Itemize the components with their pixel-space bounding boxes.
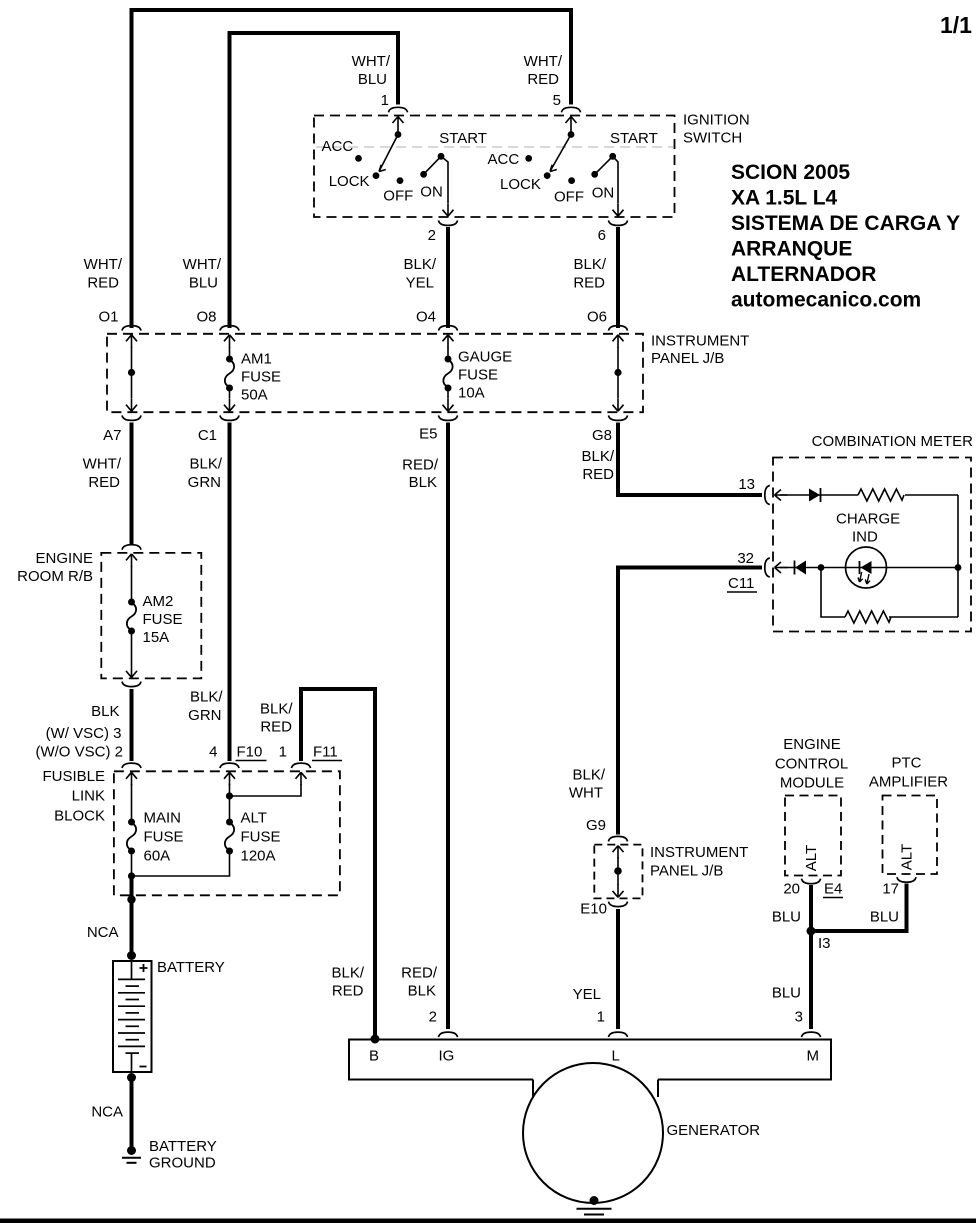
label E4: [823, 881, 843, 898]
svg-text:FUSE: FUSE: [241, 369, 281, 386]
svg-text:LINK: LINK: [72, 788, 105, 805]
wire YEL E10 down to generator L: [616, 909, 620, 1029]
wire BLU PTC to node I3: [811, 884, 907, 932]
ignition switch label: [683, 112, 750, 147]
combination meter box: [773, 458, 971, 632]
generator ground: [577, 1196, 612, 1215]
pin 13 arrow: [775, 490, 788, 501]
node below fusible link block: [127, 895, 135, 903]
svg-text:ALT: ALT: [241, 810, 267, 827]
svg-text:GRN: GRN: [188, 474, 221, 491]
battery plates: [118, 979, 145, 1053]
svg-text:CONTROL: CONTROL: [775, 756, 848, 773]
battery plus terminal: [132, 961, 148, 979]
label BLK/GRN above fusible link block: [188, 689, 223, 725]
svg-text:OFF: OFF: [383, 188, 413, 205]
svg-text:INSTRUMENT: INSTRUMENT: [650, 844, 748, 861]
connector M (female): [802, 1032, 821, 1037]
label wire BLK/GRN (upper): [188, 456, 223, 492]
svg-text:RED: RED: [87, 275, 119, 292]
pin O4 arrow: [443, 335, 454, 348]
svg-text:10A: 10A: [458, 385, 485, 402]
connector G8 (female): [609, 415, 628, 420]
svg-text:(W/ VSC) 3: (W/ VSC) 3: [46, 725, 122, 742]
switch arm to LOCK (left switch): [379, 135, 398, 172]
contact LOCK (right switch): [500, 172, 551, 193]
connector E10 (female): [609, 902, 628, 907]
connector out of engine room R/B (female): [122, 682, 141, 687]
svg-text:ACC: ACC: [488, 151, 520, 168]
node B at generator: [371, 1035, 380, 1044]
svg-text:SWITCH: SWITCH: [683, 130, 742, 147]
label wire BLK/YEL: [403, 256, 436, 292]
wire 13 branch: [780, 494, 958, 496]
wire WHT/BLU from O8 up over to ignition terminal 1: [230, 33, 399, 328]
label wire RED/BLK (upper): [402, 457, 439, 492]
svg-text:BLU: BLU: [870, 909, 899, 926]
wire BLK/YEL terminal 2 to O4: [446, 227, 450, 328]
ignition switch box: [314, 116, 675, 218]
fuse MAIN 60A: [127, 784, 136, 855]
svg-text:automecanico.com: automecanico.com: [731, 289, 921, 312]
label RED/BLK near generator IG: [401, 965, 438, 1000]
svg-text:1: 1: [381, 92, 389, 109]
svg-text:ON: ON: [420, 184, 443, 201]
instrument panel J/B box: [107, 334, 643, 412]
label AM1 FUSE 50A: [241, 351, 281, 404]
wire NCA battery to ground: [130, 1078, 134, 1150]
svg-text:BLK/: BLK/: [190, 689, 223, 706]
contact START (left switch): [438, 130, 487, 160]
svg-text:MODULE: MODULE: [780, 775, 844, 792]
connector 17 (female): [897, 877, 916, 882]
label wire WHT/RED (upper): [84, 256, 123, 292]
svg-text:ENGINE: ENGINE: [783, 736, 841, 753]
svg-text:F11: F11: [313, 744, 338, 761]
svg-text:F10: F10: [237, 744, 263, 761]
fuse AM1 50A: [225, 347, 234, 398]
wire BLK down to fusible link block: [130, 689, 134, 761]
generator box: [349, 1040, 831, 1098]
battery minus terminal: [132, 1053, 147, 1072]
node F10/F11 tie with junction: [226, 784, 301, 822]
engine room R/B label: [17, 550, 93, 585]
terminal labels 4 F10 1 F11: [209, 744, 342, 761]
node right tie junction: [955, 564, 962, 571]
contact OFF (right switch): [554, 177, 584, 205]
pin arrow out of engine room R/B: [126, 664, 137, 677]
svg-text:PANEL J/B: PANEL J/B: [651, 350, 724, 367]
connector O4 (female): [439, 326, 458, 331]
pin O1 arrow: [126, 335, 137, 348]
svg-text:RED: RED: [260, 719, 292, 736]
svg-text:17: 17: [882, 881, 899, 898]
right vertical tie line: [957, 495, 959, 617]
connector 1/F11 (female): [292, 763, 311, 768]
svg-text:3: 3: [795, 1009, 803, 1026]
svg-text:RED: RED: [573, 275, 605, 292]
svg-text:A7: A7: [103, 427, 121, 444]
svg-text:O1: O1: [98, 309, 118, 326]
svg-text:WHT/: WHT/: [352, 53, 391, 70]
svg-text:120A: 120A: [241, 848, 276, 865]
svg-text:BLK/: BLK/: [189, 456, 222, 473]
svg-text:20: 20: [783, 881, 800, 898]
connector 1 (female): [389, 107, 408, 112]
wire 32 branch: [780, 567, 958, 569]
svg-text:O6: O6: [587, 309, 607, 326]
engine control module box: [785, 796, 841, 876]
charge indicator LED diode: [860, 561, 872, 574]
connector 20/E4 (female): [802, 879, 821, 884]
svg-text:INSTRUMENT: INSTRUMENT: [651, 333, 749, 350]
contact LOCK (left switch): [329, 172, 380, 190]
label wire BLK/RED G8: [581, 448, 614, 483]
svg-text:WHT/: WHT/: [83, 456, 122, 473]
svg-text:E4: E4: [824, 881, 842, 898]
pin arrow 4/F10: [224, 772, 235, 785]
contact ON (right switch): [591, 171, 614, 202]
wire WHT/RED A7 down to engine room R/B: [130, 423, 134, 545]
svg-text:IG: IG: [439, 1048, 455, 1065]
node battery negative: [127, 1073, 136, 1082]
instrument panel J/B label: [651, 333, 749, 368]
svg-text:BLOCK: BLOCK: [54, 808, 105, 825]
svg-text:BLK: BLK: [409, 474, 437, 491]
connector C11 label: [727, 575, 757, 592]
svg-text:AM1: AM1: [241, 351, 272, 368]
contact OFF (left switch): [383, 177, 413, 204]
svg-text:NCA: NCA: [87, 924, 119, 941]
terminal 2 pin arrow: [443, 203, 454, 216]
svg-text:WHT/: WHT/: [84, 256, 123, 273]
svg-text:GROUND: GROUND: [149, 1155, 216, 1172]
svg-text:1: 1: [279, 744, 287, 761]
diode D1 (anode left): [809, 488, 821, 502]
label wire WHT/BLU (upper): [183, 256, 222, 292]
wire START pivot down to terminal 6 (right switch): [613, 156, 618, 203]
fuse AM2 15A: [127, 566, 136, 665]
svg-text:FUSIBLE: FUSIBLE: [42, 768, 105, 785]
svg-text:OFF: OFF: [554, 189, 584, 206]
svg-text:ON: ON: [592, 185, 615, 202]
svg-text:M: M: [807, 1048, 820, 1065]
engine room R/B box: [101, 553, 201, 679]
svg-text:RED: RED: [527, 71, 559, 88]
svg-text:32: 32: [737, 550, 754, 567]
switch arm pivot (left switch): [395, 129, 402, 138]
connector L (female): [609, 1032, 628, 1037]
connector 2/3 into fusible link block (female): [122, 763, 141, 768]
PTC amplifier box: [883, 796, 938, 875]
fuse GAUGE 10A: [443, 347, 452, 398]
svg-text:GRN: GRN: [188, 707, 221, 724]
svg-text:BATTERY: BATTERY: [149, 1138, 217, 1155]
resistor R1: [858, 488, 905, 502]
wire START pivot down to terminal 2 (left switch): [441, 156, 448, 203]
pin E10 arrow: [613, 884, 624, 897]
wire BLK/GRN C1 down to fusible link block: [228, 423, 232, 762]
connector O6 (female): [609, 326, 628, 331]
bottom border bar: [0, 1219, 976, 1223]
svg-text:RED: RED: [582, 466, 614, 483]
svg-text:GENERATOR: GENERATOR: [667, 1122, 761, 1139]
node O1-A7 junction: [128, 347, 135, 398]
label AM2 FUSE 15A: [143, 593, 183, 646]
svg-text:BLK/: BLK/: [331, 965, 364, 982]
svg-text:L: L: [612, 1048, 620, 1065]
svg-text:ALT: ALT: [803, 845, 820, 871]
svg-text:ROOM R/B: ROOM R/B: [17, 568, 93, 585]
contact ACC (right switch): [488, 151, 533, 168]
svg-text:ARRANQUE: ARRANQUE: [731, 238, 852, 261]
pin A7 arrow: [126, 398, 137, 411]
node MAIN/ALT junction: [128, 851, 135, 880]
svg-text:FUSE: FUSE: [143, 611, 183, 628]
pin arrow into engine room R/B: [126, 554, 137, 567]
svg-text:C1: C1: [198, 427, 217, 444]
node G9-E10 junction: [614, 857, 622, 885]
svg-text:ENGINE: ENGINE: [35, 550, 93, 567]
svg-text:C11: C11: [728, 575, 754, 592]
faint inner divider line: [316, 146, 673, 148]
svg-text:BLK/: BLK/: [403, 256, 436, 273]
svg-text:AM2: AM2: [143, 593, 174, 610]
pin O8 arrow: [224, 335, 235, 348]
label wire BLK/RED (upper): [573, 256, 606, 292]
svg-text:1: 1: [597, 1009, 605, 1026]
svg-text:YEL: YEL: [406, 275, 434, 292]
svg-text:XA 1.5L L4: XA 1.5L L4: [731, 187, 838, 210]
label CHARGE IND: [836, 511, 900, 546]
svg-text:COMBINATION METER: COMBINATION METER: [812, 433, 974, 450]
connector IG (female): [439, 1032, 458, 1037]
connector 1 pin arrow: [393, 117, 404, 130]
svg-text:6: 6: [598, 227, 606, 244]
engine control module label: [775, 736, 848, 792]
pin G9 arrow: [613, 846, 624, 859]
fuse ALT 120A: [225, 819, 234, 855]
contact ON (left switch): [420, 171, 443, 201]
svg-text:BLU: BLU: [772, 909, 801, 926]
label BLK/WHT: [569, 767, 606, 802]
svg-text:2: 2: [428, 227, 436, 244]
switch arm pivot (right switch): [568, 129, 575, 138]
wire WHT/RED from O1 up over to ignition terminal 5: [132, 10, 572, 328]
svg-text:RED: RED: [88, 474, 120, 491]
switch arm to LOCK (right switch): [550, 135, 571, 172]
connector 5 pin arrow: [566, 117, 577, 130]
svg-text:(W/O VSC) 2: (W/O VSC) 2: [35, 744, 123, 761]
connector E5 (female): [439, 415, 458, 420]
generator circle: [523, 1063, 663, 1203]
svg-text:BATTERY: BATTERY: [157, 959, 225, 976]
svg-text:YEL: YEL: [573, 986, 601, 1003]
svg-text:WHT/: WHT/: [524, 53, 563, 70]
small instrument panel J/B box: [594, 845, 642, 899]
svg-text:LOCK: LOCK: [500, 176, 541, 193]
wire BLK/WHT from meter 32 down to G9: [618, 568, 762, 835]
svg-text:WHT: WHT: [569, 785, 603, 802]
connector G9 (female): [609, 836, 628, 841]
node battery positive: [127, 951, 136, 960]
label GAUGE FUSE 10A: [458, 349, 512, 402]
svg-text:BLU: BLU: [189, 275, 218, 292]
svg-text:PANEL J/B: PANEL J/B: [650, 863, 723, 880]
svg-text:RED/: RED/: [401, 965, 438, 982]
svg-text:FUSE: FUSE: [144, 829, 184, 846]
pin arrow 2/3: [126, 772, 137, 785]
svg-text:FUSE: FUSE: [241, 829, 281, 846]
svg-text:PTC: PTC: [892, 755, 922, 772]
wire ON to START pivot (right switch): [595, 156, 613, 174]
diode D2 (cathode left): [795, 561, 807, 575]
svg-text:BLU: BLU: [772, 985, 801, 1002]
terminal 6 pin arrow: [613, 203, 624, 216]
node I3 junction: [807, 927, 831, 953]
node charge ind branch junction: [818, 564, 825, 571]
svg-text:4: 4: [209, 744, 217, 761]
connector 4/F10 (female): [220, 763, 239, 768]
svg-text:G8: G8: [592, 427, 612, 444]
svg-text:RED/: RED/: [402, 457, 439, 474]
node O6-G8 junction: [614, 347, 621, 398]
wire RED/BLK E5 down to generator IG: [446, 423, 450, 1030]
battery box: [113, 961, 152, 1072]
title block: [731, 161, 960, 312]
svg-text:BLK/: BLK/: [573, 256, 606, 273]
connector O1 (female): [122, 326, 141, 331]
svg-text:START: START: [439, 130, 487, 147]
label WHT/BLU wire 1: [352, 53, 391, 109]
fusible link block box: [114, 771, 340, 895]
connector 6 (female): [609, 220, 628, 225]
svg-text:FUSE: FUSE: [458, 367, 498, 384]
resistor R2 branch: [821, 568, 845, 618]
svg-text:13: 13: [738, 476, 755, 493]
wire BLK/RED terminal 6 to O6: [616, 227, 620, 328]
wire BLK/RED from fusible link F11 over to generator B: [301, 689, 375, 1037]
svg-text:60A: 60A: [144, 848, 171, 865]
label WHT/RED wire 5: [524, 53, 563, 109]
PTC amplifier label: [869, 755, 948, 791]
svg-text:ACC: ACC: [322, 138, 354, 155]
svg-text:WHT/: WHT/: [183, 256, 222, 273]
svg-text:SISTEMA DE CARGA Y: SISTEMA DE CARGA Y: [731, 212, 960, 235]
svg-text:MAIN: MAIN: [144, 810, 182, 827]
contact ACC (left switch): [322, 138, 362, 162]
pin O6 arrow: [613, 335, 624, 348]
svg-text:E10: E10: [580, 901, 607, 918]
connector 2 (female): [439, 220, 458, 225]
battery ground label: [149, 1138, 217, 1172]
svg-text:IGNITION: IGNITION: [683, 112, 750, 129]
pin G8 arrow: [613, 398, 624, 411]
pin 32 arrow: [775, 562, 788, 573]
svg-text:RED: RED: [332, 983, 364, 1000]
label ALT FUSE 120A: [241, 810, 281, 865]
svg-text:O8: O8: [196, 309, 216, 326]
svg-text:BLK/: BLK/: [572, 767, 605, 784]
connector 5 (female): [562, 107, 581, 112]
pin arrow 1/F11: [296, 772, 307, 785]
small instrument panel J/B label: [650, 844, 748, 880]
pin E5 arrow: [443, 398, 454, 411]
svg-text:BLK: BLK: [91, 703, 119, 720]
connector into engine room R/B (female): [122, 545, 141, 550]
svg-text:IND: IND: [852, 529, 878, 546]
contact START (right switch): [609, 130, 657, 160]
svg-text:ALTERNADOR: ALTERNADOR: [731, 263, 876, 286]
svg-text:CHARGE: CHARGE: [836, 511, 900, 528]
svg-text:BLU: BLU: [358, 71, 387, 88]
svg-text:START: START: [610, 130, 658, 147]
svg-text:15A: 15A: [143, 629, 170, 646]
connector C1 (female): [220, 415, 239, 420]
connector 32 (female): [765, 558, 770, 577]
svg-text:SCION 2005: SCION 2005: [731, 161, 850, 184]
label BLK/RED above fusible link block: [260, 701, 293, 736]
label wire WHT/RED (lower): [83, 456, 122, 492]
resistor R2: [845, 611, 958, 623]
charge indicator LED circle: [846, 547, 887, 588]
charge indicator LED arrows: [858, 572, 870, 584]
svg-text:O4: O4: [416, 309, 436, 326]
pin C1 arrow: [224, 398, 235, 411]
svg-text:5: 5: [553, 92, 561, 109]
wire ALT fuse bottom to MAIN fuse bottom: [132, 851, 230, 876]
svg-text:G9: G9: [586, 817, 606, 834]
svg-text:BLK/: BLK/: [581, 448, 614, 465]
svg-text:ALT: ALT: [899, 844, 916, 870]
svg-text:B: B: [369, 1048, 379, 1065]
battery ground symbol: [122, 1146, 141, 1163]
connector 13 (female): [765, 486, 770, 505]
wire ON to START pivot (left switch): [424, 156, 441, 174]
connector A7 (female): [122, 415, 141, 420]
svg-text:BLK/: BLK/: [260, 701, 293, 718]
label BLK (W/ VSC) 3 (W/O VSC) 2: [35, 703, 123, 761]
svg-text:50A: 50A: [241, 387, 268, 404]
wire BLU ECM to generator M: [809, 885, 813, 1029]
svg-text:AMPLIFIER: AMPLIFIER: [869, 774, 948, 791]
svg-text:GAUGE: GAUGE: [458, 349, 512, 366]
fusible link block label: [42, 768, 105, 825]
svg-text:BLK: BLK: [408, 983, 436, 1000]
svg-text:2: 2: [429, 1009, 437, 1026]
svg-text:NCA: NCA: [91, 1104, 123, 1121]
label BLK/RED near generator B: [331, 965, 364, 1000]
wire NCA fusible link block to battery: [130, 876, 134, 956]
label MAIN FUSE 60A: [144, 810, 184, 865]
wire BLK/RED G8 down and right to combination meter 13: [618, 423, 762, 496]
svg-text:LOCK: LOCK: [329, 173, 370, 190]
connector O8 (female): [220, 326, 239, 331]
svg-text:I3: I3: [818, 935, 831, 952]
svg-text:E5: E5: [419, 426, 437, 443]
svg-text:1/1: 1/1: [940, 12, 972, 38]
